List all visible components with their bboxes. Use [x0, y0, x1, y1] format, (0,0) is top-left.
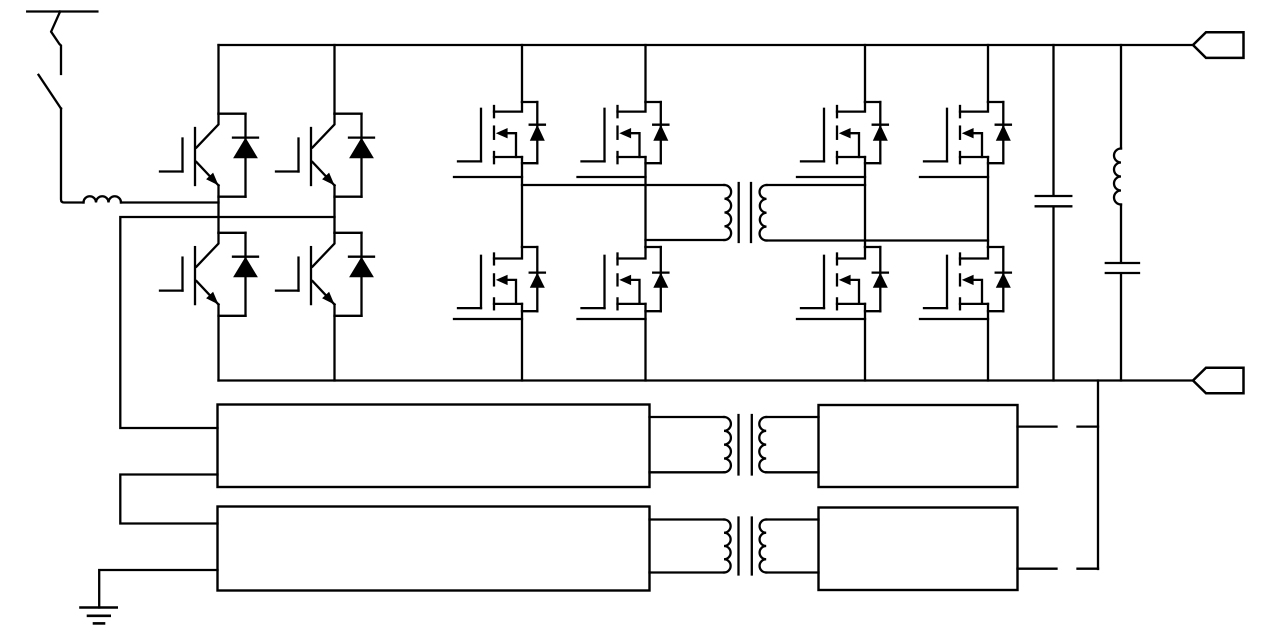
- pantograph: [51, 12, 61, 75]
- MOSFET Q7: [618, 102, 646, 112]
- control box B2: [218, 507, 650, 591]
- wire primary bottom lead: [646, 239, 725, 241]
- control box B3: [819, 405, 1018, 487]
- inductor L1: [84, 196, 122, 202]
- transformer T2 secondary winding: [759, 417, 766, 472]
- body diode D5: [522, 101, 537, 103]
- wire DC+ top rail: [219, 44, 1194, 46]
- body diode D12: [988, 246, 1003, 248]
- MOSFET Q11: [960, 102, 988, 112]
- wire primary top lead: [522, 184, 725, 186]
- body diode D9: [865, 101, 880, 103]
- transformer T2 primary winding: [724, 417, 731, 472]
- body diode D8: [646, 246, 661, 248]
- IGBT Q3: [313, 114, 335, 148]
- connector J1 DC+ output: [1193, 32, 1244, 58]
- capacitor C2: [1106, 205, 1139, 381]
- IGBT Q4: [313, 233, 335, 267]
- diode D3: [335, 113, 362, 115]
- wire leg1 vertical: [217, 45, 219, 381]
- wire B1 to B2 link: [120, 475, 217, 524]
- IGBT Q2: [197, 233, 219, 267]
- connector J2 DC- output: [1193, 368, 1244, 394]
- transformer T1 primary winding: [725, 185, 732, 240]
- diode D4: [335, 232, 362, 234]
- ground: [81, 606, 117, 609]
- wire B1 to T2 leads: [650, 417, 725, 472]
- control box B4: [819, 508, 1018, 591]
- wire L1 to leg1 midpoint: [121, 201, 219, 203]
- transformer T3 core: [739, 518, 752, 575]
- capacitor C1: [1036, 45, 1072, 381]
- wire leg2 vertical: [333, 45, 335, 381]
- wire secondary bottom lead: [767, 239, 989, 241]
- wire sense dash to B4: [1018, 568, 1099, 570]
- body diode D11: [988, 101, 1003, 103]
- MOSFET Q8: [618, 247, 646, 259]
- wire secondary top lead: [767, 184, 866, 186]
- wire B2 to T3 leads: [650, 520, 725, 573]
- transformer T1 secondary winding: [760, 185, 767, 241]
- transformer T1 core: [739, 183, 751, 242]
- wire AC return to leg2 midpoint: [120, 217, 334, 428]
- wire B2 to ground: [99, 570, 217, 608]
- IGBT Q1: [197, 114, 219, 148]
- transformer T3 secondary winding: [760, 520, 767, 573]
- MOSFET Q5: [494, 102, 522, 112]
- wire T2 to B3 leads: [766, 417, 818, 472]
- wire leg3 vertical: [521, 45, 523, 381]
- MOSFET Q6: [494, 247, 522, 259]
- wire T3 to B4 leads: [766, 520, 818, 573]
- wire sense vertical: [1097, 381, 1099, 570]
- body diode D6: [522, 246, 537, 248]
- MOSFET Q12: [960, 247, 988, 259]
- wire leg6 vertical: [987, 45, 989, 381]
- MOSFET Q10: [837, 247, 865, 259]
- MOSFET Q9: [837, 102, 865, 112]
- overhead contact line: [27, 10, 97, 12]
- body diode D10: [865, 246, 880, 248]
- wire DC- bottom rail: [219, 379, 1194, 381]
- transformer T2 core: [739, 415, 752, 475]
- transformer T3 primary winding: [724, 520, 731, 573]
- wire leg5 vertical: [864, 45, 866, 381]
- diode D2: [219, 232, 246, 234]
- switch S1 blade: [39, 75, 62, 109]
- wire leg4 vertical: [644, 45, 646, 381]
- wire sense dash to B3: [1018, 425, 1099, 427]
- wire input vertical: [61, 109, 84, 203]
- diode D1: [219, 113, 246, 115]
- body diode D7: [646, 101, 661, 103]
- inductor L2: [1120, 45, 1122, 149]
- control box B1: [218, 405, 650, 488]
